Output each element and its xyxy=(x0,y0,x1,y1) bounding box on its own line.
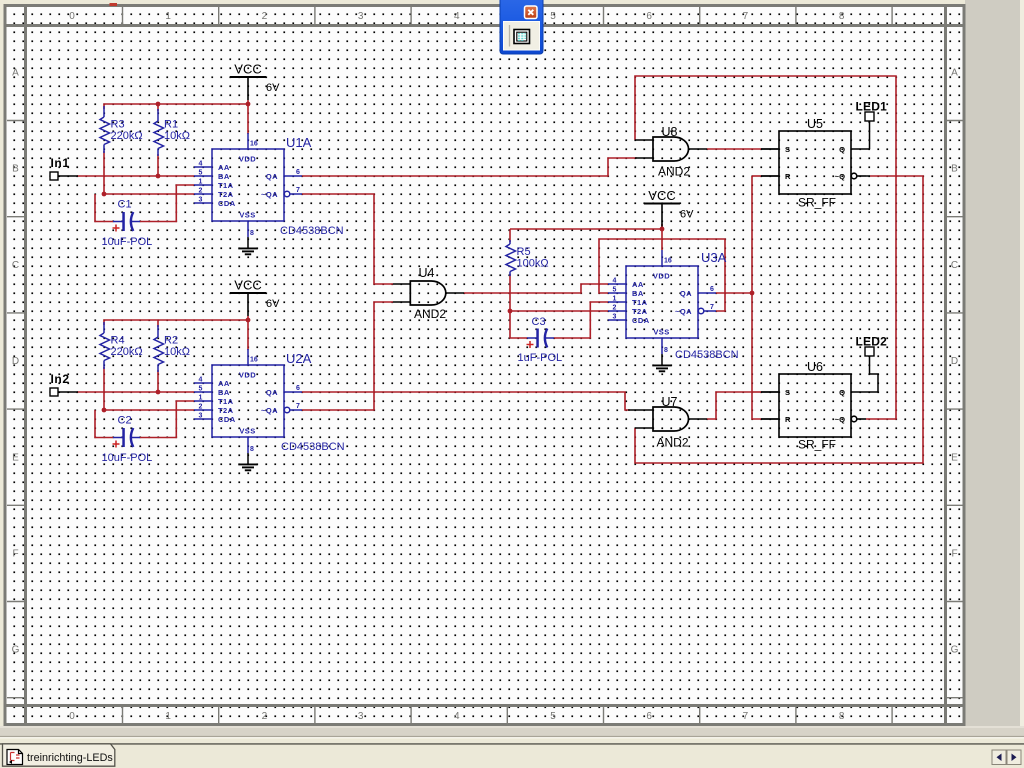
svg-text:8: 8 xyxy=(839,11,845,22)
svg-text:C2: C2 xyxy=(118,415,132,427)
svg-text:10uF-POL: 10uF-POL xyxy=(102,236,153,248)
svg-text:2: 2 xyxy=(262,711,268,722)
svg-text:U1A: U1A xyxy=(286,135,312,150)
svg-text:1: 1 xyxy=(165,711,171,722)
svg-text:U3A: U3A xyxy=(701,250,727,265)
svg-text:G: G xyxy=(951,645,959,656)
svg-text:U5: U5 xyxy=(807,117,823,131)
svg-text:R2: R2 xyxy=(164,335,178,347)
svg-text:CD4538BCN: CD4538BCN xyxy=(281,441,345,453)
svg-text:U7: U7 xyxy=(662,395,678,409)
svg-text:A: A xyxy=(951,68,958,79)
svg-text:D: D xyxy=(951,356,958,367)
svg-text:1: 1 xyxy=(165,11,171,22)
svg-text:AND2: AND2 xyxy=(657,436,689,450)
svg-text:220kΩ: 220kΩ xyxy=(111,130,143,142)
svg-text:10kΩ: 10kΩ xyxy=(164,130,190,142)
svg-text:5: 5 xyxy=(550,711,556,722)
svg-text:5: 5 xyxy=(550,11,556,22)
svg-text:A: A xyxy=(12,68,19,79)
svg-text:10kΩ: 10kΩ xyxy=(164,346,190,358)
svg-text:R5: R5 xyxy=(517,246,531,258)
svg-text:10uF-POL: 10uF-POL xyxy=(102,452,153,464)
svg-text:F: F xyxy=(12,549,18,560)
svg-text:U8: U8 xyxy=(662,125,678,139)
svg-text:R4: R4 xyxy=(111,335,125,347)
svg-text:U2A: U2A xyxy=(286,351,312,366)
svg-text:In1: In1 xyxy=(51,156,70,170)
svg-text:0: 0 xyxy=(69,711,75,722)
svg-text:SR_FF: SR_FF xyxy=(798,438,836,452)
svg-text:LED1: LED1 xyxy=(856,100,888,114)
svg-text:C3: C3 xyxy=(532,316,546,328)
svg-text:E: E xyxy=(12,452,19,463)
svg-text:220kΩ: 220kΩ xyxy=(111,346,143,358)
svg-text:AND2: AND2 xyxy=(414,307,446,321)
svg-text:CD4538BCN: CD4538BCN xyxy=(280,225,344,237)
svg-text:B: B xyxy=(951,164,958,175)
svg-text:D: D xyxy=(12,356,19,367)
svg-text:6: 6 xyxy=(646,11,652,22)
svg-text:In2: In2 xyxy=(51,372,70,386)
svg-text:G: G xyxy=(12,645,20,656)
svg-text:SR_FF: SR_FF xyxy=(798,196,836,210)
svg-text:3: 3 xyxy=(358,11,364,22)
svg-text:U6: U6 xyxy=(807,360,823,374)
svg-text:R1: R1 xyxy=(164,119,178,131)
svg-text:U4: U4 xyxy=(419,266,435,280)
svg-text:B: B xyxy=(12,164,19,175)
svg-text:100kΩ: 100kΩ xyxy=(517,258,549,270)
svg-text:0: 0 xyxy=(69,11,75,22)
svg-text:3: 3 xyxy=(358,711,364,722)
svg-text:treinrichting-LEDs: treinrichting-LEDs xyxy=(27,752,113,764)
svg-text:LED2: LED2 xyxy=(856,335,888,349)
svg-text:CD4538BCN: CD4538BCN xyxy=(675,349,739,361)
svg-text:F: F xyxy=(951,549,957,560)
svg-text:1uF-POL: 1uF-POL xyxy=(518,352,563,364)
svg-text:E: E xyxy=(951,452,958,463)
svg-text:7: 7 xyxy=(743,11,749,22)
svg-text:2: 2 xyxy=(262,11,268,22)
svg-text:AND2: AND2 xyxy=(658,165,690,179)
svg-text:C: C xyxy=(12,260,19,271)
svg-text:4: 4 xyxy=(454,11,460,22)
svg-text:R3: R3 xyxy=(111,119,125,131)
svg-text:8: 8 xyxy=(839,711,845,722)
svg-text:C1: C1 xyxy=(118,199,132,211)
svg-text:4: 4 xyxy=(454,711,460,722)
svg-text:6: 6 xyxy=(646,711,652,722)
svg-text:C: C xyxy=(951,260,958,271)
svg-text:7: 7 xyxy=(743,711,749,722)
